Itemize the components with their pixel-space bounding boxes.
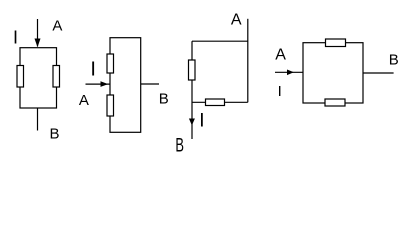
wire: circuit 2 output lead to B <box>141 83 159 85</box>
wire: circuit 3 right lead from A <box>247 19 249 103</box>
svg-text:I: I <box>278 83 282 100</box>
wire: circuit 3 bottom edge <box>192 101 248 103</box>
svg-text:I: I <box>13 28 18 48</box>
wire: circuit 4 output lead to B <box>363 72 394 74</box>
wire: circuit 4 input lead A <box>275 71 303 73</box>
wire: circuit 3 left branch <box>191 41 193 139</box>
wire: circuit 1 parallel loop <box>20 48 57 108</box>
resistor R8 (bottom branch, circuit 4) <box>325 99 345 106</box>
resistor R3 (upper left branch, circuit 2) <box>107 54 114 73</box>
wire: circuit 3 top edge <box>192 40 248 42</box>
resistor R7 (top branch, circuit 4) <box>326 39 346 47</box>
wire: circuit 2 series loop <box>110 38 141 133</box>
current arrow into node A circuit 1 <box>35 39 41 48</box>
svg-text:A: A <box>231 12 242 29</box>
svg-text:A: A <box>79 92 89 109</box>
svg-text:I: I <box>199 111 204 132</box>
wire: circuit 1 bottom lead to B <box>37 108 39 131</box>
resistor R1 (left branch, circuit 1) <box>17 66 24 88</box>
svg-text:B: B <box>50 125 60 142</box>
resistor R5 (vertical, circuit 3) <box>189 60 196 80</box>
wire: circuit 4 parallel loop <box>303 43 363 103</box>
resistor R2 (right branch, circuit 1) <box>53 66 60 88</box>
svg-text:B: B <box>175 136 184 157</box>
resistor R4 (lower left branch, circuit 2) <box>107 95 114 116</box>
svg-text:B: B <box>159 91 169 108</box>
svg-text:I: I <box>90 59 96 81</box>
svg-text:A: A <box>52 18 62 35</box>
svg-text:A: A <box>275 47 286 64</box>
wire: circuit 2 input lead A <box>86 83 111 85</box>
resistor R6 (horizontal, circuit 3) <box>206 99 225 106</box>
current arrow into circuit 4 <box>287 70 294 76</box>
svg-text:B: B <box>389 52 399 69</box>
wire: circuit 1 top lead <box>37 19 39 47</box>
current arrow out of circuit 3 <box>189 119 195 126</box>
current arrow into circuit 2 <box>101 81 109 87</box>
